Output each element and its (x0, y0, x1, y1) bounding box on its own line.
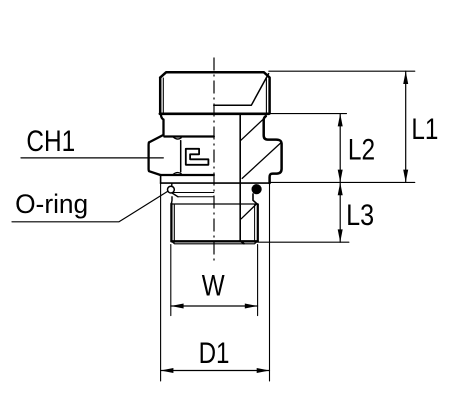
svg-text:CH1: CH1 (26, 125, 75, 158)
svg-text:O-ring: O-ring (15, 189, 88, 219)
svg-text:W: W (202, 270, 225, 303)
svg-text:L1: L1 (411, 113, 438, 146)
svg-text:L2: L2 (348, 134, 375, 167)
svg-text:D1: D1 (199, 337, 230, 370)
svg-text:L3: L3 (346, 199, 374, 232)
